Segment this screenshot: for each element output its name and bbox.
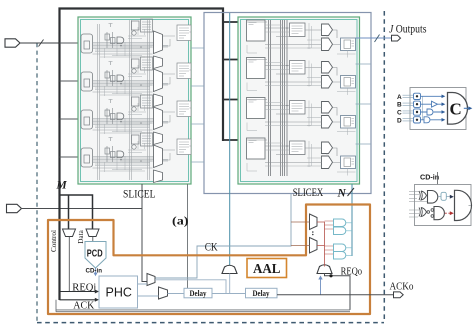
M bus thin stubs into SLICEL — [60, 43, 82, 157]
red dashed wire + arrow — [445, 212, 451, 214]
svg-text:CD-in: CD-in — [86, 267, 103, 274]
input stubs top — [409, 192, 427, 202]
Control funnel stem — [68, 237, 70, 292]
NAND gate 2 — [434, 207, 444, 220]
SLICEL row 2 — [81, 57, 191, 107]
input square B — [414, 101, 421, 107]
PHC to MUX wires — [138, 284, 159, 296]
bus slash on J output — [375, 35, 380, 43]
AND gate 1 — [428, 191, 438, 204]
red wire from gates to REQo latch — [324, 255, 326, 267]
cluster mux 2 — [310, 238, 318, 254]
REQi wire with arrow — [60, 291, 96, 293]
J output wire crossing dashed border — [371, 37, 392, 39]
red select verticals — [317, 222, 325, 255]
SLICEL bottom feed vertical — [142, 184, 147, 282]
SLICEX teal inner box — [241, 20, 358, 182]
SLICEX row 3 — [247, 98, 356, 136]
PCD block — [85, 242, 106, 269]
REQo output wire — [325, 274, 351, 310]
SLICEX internal vertical buses — [269, 20, 288, 176]
MUX B trapezoid — [159, 287, 168, 299]
N line vertical — [351, 184, 353, 256]
LUT detail box — [410, 88, 466, 130]
svg-text:N: N — [337, 187, 347, 199]
ellipsis dots between muxes — [312, 231, 314, 233]
M bus black frame — [60, 9, 224, 301]
ACKo wire — [277, 294, 394, 296]
wire C + gate — [421, 111, 443, 113]
J output pentagon — [392, 35, 401, 41]
SLICEX right exit wires to blue frame — [356, 64, 372, 144]
input square C — [414, 109, 421, 115]
ACKo pentagon — [394, 292, 404, 298]
svg-text:D: D — [397, 117, 402, 124]
svg-text:PHC: PHC — [106, 286, 132, 300]
bus slash on N line — [348, 188, 355, 196]
input wire 1 — [20, 42, 60, 44]
M bus bottom branch to funnels — [60, 195, 93, 229]
NAND gate 2 input bubbles — [431, 209, 434, 212]
wire between delays — [212, 293, 246, 295]
XOR gate 1 — [419, 191, 427, 200]
input square D — [414, 117, 421, 123]
input wire 2 (to MUX A via vertical) — [21, 208, 142, 210]
PHC block — [99, 276, 138, 308]
dashed boundary left — [36, 43, 38, 322]
SLICEL right exit wires — [191, 48, 204, 162]
wire A to C-block — [421, 95, 443, 97]
SLICEX row 2 — [247, 58, 356, 96]
SLICEL teal inner box — [81, 20, 189, 182]
MUX A output wire — [155, 280, 226, 294]
cluster mux 1 — [310, 214, 318, 230]
input port pentagon 1 — [5, 39, 20, 47]
C block output arrow — [464, 107, 469, 109]
svg-text:PCD: PCD — [87, 248, 103, 259]
red gate stubs — [325, 221, 334, 254]
SLICEX row 1 — [247, 20, 356, 58]
svg-text:AAL: AAL — [253, 262, 281, 277]
svg-text:SLICEX: SLICEX — [293, 185, 324, 199]
ACK wire with arrow — [60, 299, 96, 301]
input pair wires — [403, 95, 414, 121]
svg-text:C: C — [450, 100, 462, 119]
svg-text:ACKo: ACKo — [390, 281, 414, 292]
SLICEL green box — [78, 17, 191, 184]
svg-text:J Outputs: J Outputs — [389, 24, 427, 36]
SLICEL row 1 — [81, 19, 191, 69]
left return riser — [55, 300, 57, 312]
big D gate — [455, 190, 472, 220]
mux input wires (brown) — [291, 222, 310, 246]
svg-text:Delay: Delay — [190, 288, 208, 298]
CD-in drop wire — [437, 172, 439, 196]
Delay box 2 — [246, 288, 278, 298]
ACK feedback arrow into latch — [320, 279, 322, 295]
branch vertical — [422, 96, 424, 120]
M bus stubs into SLICEX — [223, 22, 247, 140]
svg-text:A: A — [397, 94, 402, 101]
svg-text:Control: Control — [50, 230, 58, 252]
svg-text:SLICEL: SLICEL — [123, 186, 156, 200]
SLICEX row 4 — [247, 138, 356, 176]
wire B + buffer — [421, 103, 443, 105]
svg-text:M: M — [56, 180, 68, 192]
CD-in arrow into PHC — [95, 268, 97, 274]
svg-text:CD-in: CD-in — [420, 173, 439, 182]
teal gate 4 — [334, 252, 346, 260]
SLICEL row 4 — [81, 133, 191, 183]
input stubs bottom — [409, 210, 419, 217]
blue frame around SLICEX — [204, 13, 371, 194]
junction dot — [329, 274, 332, 277]
SLICEL row 3 — [81, 95, 191, 145]
J output wire inside — [356, 37, 372, 39]
SLICEX feedback step wire — [147, 194, 291, 279]
CK latch dome — [222, 265, 237, 273]
coupling cell — [441, 192, 446, 200]
bus slash on input wire 1 — [39, 40, 44, 47]
Control funnel — [63, 229, 76, 237]
dashed boundary bottom — [37, 322, 384, 324]
svg-text:B: B — [397, 102, 402, 109]
teal gate 1 — [334, 219, 346, 227]
CK latch output vertical — [229, 274, 231, 294]
svg-text:C: C — [397, 110, 402, 117]
svg-text:Data: Data — [77, 229, 85, 243]
SLICEX green box — [238, 17, 360, 184]
svg-text:(a): (a) — [172, 214, 189, 228]
long return wire 2 — [56, 311, 350, 313]
CK distribution vertical — [229, 13, 231, 266]
teal gate 3 — [334, 244, 346, 252]
teal gate 2 — [334, 227, 346, 235]
dashed boundary right — [383, 11, 385, 322]
svg-text:Delay: Delay — [253, 288, 271, 298]
SLICEL second feed vertical — [187, 184, 189, 288]
svg-text:REQo: REQo — [341, 267, 363, 278]
CD detail box — [415, 185, 472, 226]
Data funnel stem into PCD — [92, 237, 94, 242]
C block — [448, 93, 468, 125]
REQo latch dome — [317, 265, 332, 274]
Delay box 1 — [184, 288, 212, 298]
gate output taps to N line — [346, 223, 352, 256]
XOR gate 2 — [419, 208, 427, 217]
Data funnel — [86, 229, 99, 237]
long return wire 1 — [56, 309, 350, 311]
AAL box — [247, 259, 287, 278]
SLICEL internal vertical buses — [98, 19, 150, 180]
input port pentagon 2 — [7, 204, 22, 212]
MUX B output to Delay 1 — [168, 293, 185, 295]
output stub — [469, 204, 472, 206]
wire D + gate — [421, 119, 443, 121]
input square A — [414, 93, 421, 99]
orange CK loop — [48, 205, 370, 315]
MUX A trapezoid — [147, 274, 155, 286]
svg-text:CK: CK — [205, 240, 218, 254]
wire and arrow into big gate (top) — [438, 196, 450, 198]
